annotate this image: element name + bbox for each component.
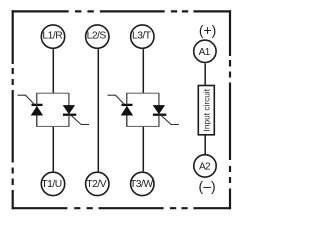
svg-text:(+): (+) [199, 22, 217, 38]
svg-text:A1: A1 [199, 47, 211, 58]
svg-text:T1/U: T1/U [41, 179, 61, 190]
svg-text:Input circuit: Input circuit [201, 88, 211, 131]
svg-text:A2: A2 [199, 161, 211, 172]
svg-text:T3/W: T3/W [130, 179, 153, 190]
svg-text:T2/V: T2/V [86, 179, 106, 190]
svg-text:(–): (–) [199, 178, 216, 194]
svg-text:L1/R: L1/R [42, 30, 62, 41]
svg-text:L2/S: L2/S [87, 30, 107, 41]
svg-text:L3/T: L3/T [132, 30, 152, 41]
